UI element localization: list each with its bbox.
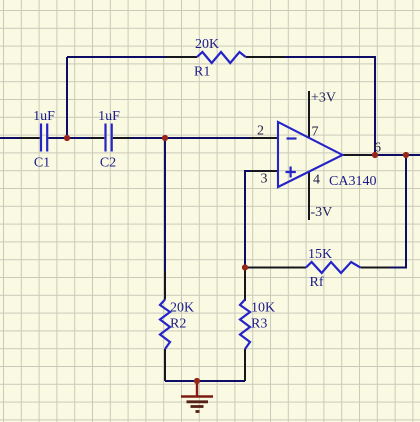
plus input symbol bbox=[286, 167, 296, 178]
svg-text:C2: C2 bbox=[100, 156, 116, 171]
wire: Rf junction down to R3 bbox=[244, 268, 246, 302]
svg-text:7: 7 bbox=[312, 125, 319, 140]
resistor R2 20K bbox=[160, 271, 194, 381]
op-amp U1 CA3140 bbox=[250, 91, 376, 220]
resistor R1 20K bbox=[166, 37, 285, 80]
node: ground junction bbox=[194, 378, 200, 384]
wire: junction A to C2 bbox=[67, 137, 90, 139]
pin 4 bbox=[308, 171, 310, 220]
wire: junction B down to R2 bbox=[164, 138, 166, 271]
wire: feedback top run to R1 bbox=[67, 56, 166, 58]
wire: R1 to top-right corner and down to output bbox=[285, 57, 375, 155]
capacitor C1 bbox=[20, 109, 67, 171]
svg-text:1uF: 1uF bbox=[98, 109, 120, 124]
power -3V bbox=[311, 205, 333, 220]
wire: C1 to junction A bbox=[49, 137, 68, 139]
wire: feedback left vertical bbox=[66, 57, 68, 138]
resistor Rf 15K bbox=[247, 247, 390, 290]
node A junction dot bbox=[64, 135, 70, 141]
svg-text:2: 2 bbox=[257, 124, 264, 139]
wire: output branch down to Rf bbox=[390, 155, 406, 268]
svg-text:20K: 20K bbox=[195, 37, 219, 52]
svg-text:R2: R2 bbox=[170, 317, 186, 332]
ground bbox=[181, 381, 213, 412]
wire: bottom run R2 to R3 bbox=[165, 380, 245, 382]
svg-text:C1: C1 bbox=[34, 156, 50, 171]
triangle body bbox=[278, 122, 343, 187]
node B junction dot bbox=[162, 135, 168, 141]
svg-text:CA3140: CA3140 bbox=[329, 174, 376, 189]
pin 3 bbox=[250, 170, 278, 172]
svg-text:R1: R1 bbox=[194, 65, 210, 80]
node: output junction at pin 6 bbox=[372, 152, 378, 158]
svg-text:Rf: Rf bbox=[310, 275, 324, 290]
pin 7 bbox=[308, 91, 310, 139]
minus input symbol bbox=[287, 137, 297, 139]
wire: C2 to junction B and on to op-amp pin 2 bbox=[130, 137, 250, 139]
node: Rf / R3 / pin3 junction bbox=[242, 264, 248, 270]
wire: main input line left of C1 bbox=[0, 137, 20, 139]
svg-text:15K: 15K bbox=[308, 247, 332, 262]
svg-text:1uF: 1uF bbox=[33, 109, 55, 124]
svg-text:20K: 20K bbox=[170, 301, 194, 316]
pin 2 bbox=[250, 137, 278, 139]
svg-text:6: 6 bbox=[374, 141, 381, 156]
wire: output pin6 run to right edge bbox=[375, 154, 420, 156]
svg-text:10K: 10K bbox=[251, 301, 275, 316]
power +3V bbox=[311, 91, 336, 106]
pin 6 bbox=[343, 154, 376, 156]
svg-text:R3: R3 bbox=[251, 317, 267, 332]
wire: pin3 to left and down bbox=[245, 171, 250, 268]
svg-text:-3V: -3V bbox=[311, 205, 333, 220]
svg-text:+3V: +3V bbox=[311, 91, 336, 106]
svg-text:3: 3 bbox=[261, 172, 268, 187]
svg-text:4: 4 bbox=[313, 173, 320, 188]
node: output junction at Rf branch bbox=[403, 152, 409, 158]
resistor R3 10K bbox=[240, 268, 275, 381]
capacitor C2 bbox=[90, 109, 130, 171]
